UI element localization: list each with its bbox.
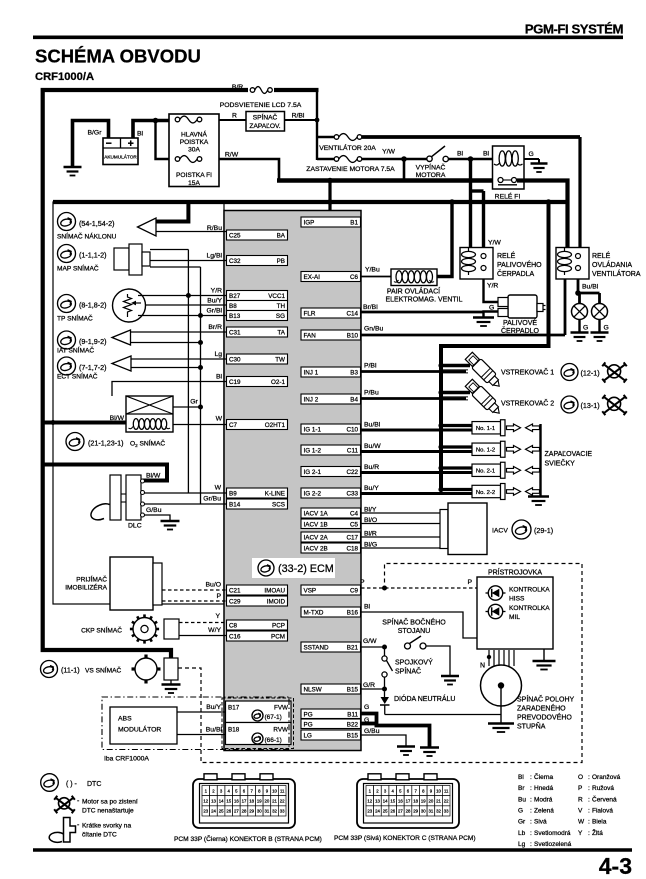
svg-text:EX-AI: EX-AI bbox=[304, 274, 321, 281]
wire vcc rail x188 bbox=[187, 250, 189, 494]
svg-text:VYPÍNAČ: VYPÍNAČ bbox=[416, 162, 446, 171]
svg-text:18: 18 bbox=[413, 798, 418, 803]
svg-text:VCC1: VCC1 bbox=[268, 293, 285, 300]
wire lamp bus bbox=[578, 293, 600, 304]
svg-text:14: 14 bbox=[219, 798, 224, 803]
svg-text::: : bbox=[588, 774, 590, 781]
connector (9-1,9-2) bbox=[58, 331, 107, 349]
svg-text:VSTREKOVAČ 1: VSTREKOVAČ 1 bbox=[501, 368, 554, 377]
svg-text:C22: C22 bbox=[346, 469, 358, 476]
svg-text:Bu/R: Bu/R bbox=[364, 464, 379, 471]
svg-text:PALIVOVÉ: PALIVOVÉ bbox=[503, 318, 537, 327]
svg-text:C29: C29 bbox=[229, 599, 241, 606]
svg-text:RELÉ FI: RELÉ FI bbox=[495, 192, 521, 201]
svg-text:Ružová: Ružová bbox=[592, 785, 614, 792]
wire coil feed bus bbox=[441, 202, 549, 490]
svg-text:ZARADENÉHO: ZARADENÉHO bbox=[517, 704, 566, 713]
wire W K-line bbox=[145, 485, 227, 494]
label Bl battery bbox=[137, 131, 144, 138]
header text PGM-FI SYSTEM bbox=[525, 22, 624, 37]
wire Bl/W O2 thick bbox=[44, 415, 126, 423]
svg-text:B15: B15 bbox=[347, 733, 359, 740]
svg-text:Gr: Gr bbox=[190, 399, 198, 406]
svg-text:C31: C31 bbox=[229, 330, 241, 337]
ignition switch SPINAC ZAPALOV bbox=[246, 112, 285, 132]
svg-text:16: 16 bbox=[398, 798, 403, 803]
svg-text:18: 18 bbox=[249, 798, 254, 803]
svg-text:V: V bbox=[578, 808, 583, 815]
svg-text:G: G bbox=[364, 704, 369, 711]
svg-text:IMOBILIZÉRA: IMOBILIZÉRA bbox=[65, 583, 107, 592]
svg-text:PCM 33P (Sivá) KONEKTOR C (STR: PCM 33P (Sivá) KONEKTOR C (STRANA PCM) bbox=[334, 835, 476, 842]
wire riser x317 bbox=[316, 88, 318, 160]
svg-text:No. 2-1: No. 2-1 bbox=[476, 469, 495, 475]
svg-text:ABS: ABS bbox=[118, 716, 132, 723]
svg-text:Lg: Lg bbox=[214, 351, 222, 358]
svg-text::: : bbox=[588, 785, 590, 792]
ground spark plugs bbox=[528, 497, 549, 506]
svg-text:ČERPADLA: ČERPADLA bbox=[497, 269, 535, 278]
svg-text:29: 29 bbox=[249, 809, 254, 814]
svg-text:FAN: FAN bbox=[304, 333, 317, 340]
label ELEKTROMAG VENTIL bbox=[385, 297, 462, 304]
svg-text:C30: C30 bbox=[229, 357, 241, 364]
wire Y CKP bbox=[179, 613, 227, 623]
wire B/R top + left main wire bbox=[43, 90, 319, 660]
svg-text:Br/R: Br/R bbox=[208, 324, 222, 331]
svg-text:B9: B9 bbox=[229, 491, 237, 498]
svg-text:Bl/W: Bl/W bbox=[146, 473, 161, 480]
label PALIVOVE CERPADLO bbox=[501, 318, 540, 335]
IAT sensor arrow bbox=[112, 330, 131, 345]
label CKP SNIMAC bbox=[81, 626, 122, 635]
svg-text:21: 21 bbox=[272, 798, 277, 803]
svg-text:Bl: Bl bbox=[137, 131, 144, 138]
svg-text:30: 30 bbox=[421, 809, 426, 814]
svg-text:MOTORA: MOTORA bbox=[416, 172, 446, 179]
svg-text:Y/R: Y/R bbox=[211, 288, 222, 295]
svg-text:B1: B1 bbox=[350, 220, 358, 227]
svg-text:G: G bbox=[529, 151, 534, 158]
svg-text:TP SNÍMAČ: TP SNÍMAČ bbox=[57, 314, 93, 323]
svg-text:17: 17 bbox=[406, 798, 411, 803]
caption connector C bbox=[334, 835, 476, 842]
svg-text:27: 27 bbox=[234, 809, 239, 814]
svg-text:OVLÁDANIA: OVLÁDANIA bbox=[592, 260, 632, 269]
svg-text:VSTREKOVAČ 2: VSTREKOVAČ 2 bbox=[501, 399, 554, 408]
svg-text:K-LINE: K-LINE bbox=[265, 491, 285, 498]
svg-text:BA: BA bbox=[277, 233, 286, 240]
svg-text:DTC nenaštartuje: DTC nenaštartuje bbox=[82, 808, 134, 815]
svg-text:28: 28 bbox=[406, 809, 411, 814]
svg-text:15: 15 bbox=[390, 798, 395, 803]
footer rule bbox=[33, 848, 632, 852]
svg-text:No. 1-2: No. 1-2 bbox=[476, 448, 495, 454]
svg-text:C18: C18 bbox=[346, 546, 358, 553]
svg-text:B18: B18 bbox=[228, 727, 240, 734]
injector VSTREKOVAC 2 bbox=[464, 378, 504, 418]
svg-text:PRIJÍMAČ: PRIJÍMAČ bbox=[76, 575, 107, 584]
svg-text:PALIVOVÉHO: PALIVOVÉHO bbox=[497, 260, 542, 269]
relay RELE OVLADANIA VENTILATORA bbox=[556, 248, 589, 280]
svg-text:Bu/Y: Bu/Y bbox=[206, 704, 221, 711]
wire Lg/Bl bbox=[150, 253, 227, 261]
indicator KONTROLKA HISS bbox=[486, 586, 551, 603]
wire G pump ground bbox=[484, 305, 499, 318]
svg-text:R/W: R/W bbox=[225, 152, 239, 159]
svg-text:13: 13 bbox=[375, 798, 380, 803]
ABS MODULATOR box bbox=[110, 707, 177, 744]
svg-text::: : bbox=[588, 808, 590, 815]
ECM right pin boxes bbox=[301, 217, 361, 740]
svg-text:W/Y: W/Y bbox=[208, 627, 221, 634]
svg-text:Bl: Bl bbox=[364, 604, 371, 611]
wire Bu/Y ABS bbox=[177, 704, 226, 712]
svg-text::: : bbox=[588, 819, 590, 826]
svg-text:29: 29 bbox=[413, 809, 418, 814]
wire tilt sensor thick bbox=[153, 202, 188, 222]
svg-text:No. 2-2: No. 2-2 bbox=[476, 490, 495, 496]
label MAP SNIMAC bbox=[57, 264, 99, 273]
svg-text:28: 28 bbox=[242, 809, 247, 814]
svg-text:TW: TW bbox=[275, 357, 285, 364]
svg-text:G/Bu: G/Bu bbox=[364, 728, 380, 735]
svg-text:25: 25 bbox=[219, 809, 224, 814]
svg-text:Bl/O: Bl/O bbox=[364, 517, 377, 524]
PCM connector C drawing bbox=[357, 774, 459, 828]
wire G/R NLSW bbox=[361, 682, 387, 692]
fuse box HLAVNA POISTKA 30A / POISTKA FI 15A bbox=[169, 114, 219, 187]
svg-text:(29-1): (29-1) bbox=[534, 526, 553, 535]
ECM pin B18 RVW (66-1) bbox=[226, 723, 292, 745]
ground fan1 bbox=[571, 333, 589, 342]
svg-text:32: 32 bbox=[436, 809, 441, 814]
ABS dashed enclosure bbox=[102, 697, 289, 750]
svg-text:Gn/Bu: Gn/Bu bbox=[364, 326, 383, 333]
svg-text:C19: C19 bbox=[229, 379, 241, 386]
svg-text:C4: C4 bbox=[350, 511, 359, 518]
svg-text:SSTAND: SSTAND bbox=[304, 645, 330, 652]
fan motor 1 bbox=[572, 304, 588, 333]
svg-text:IAT SNÍMAČ: IAT SNÍMAČ bbox=[57, 346, 94, 355]
svg-text:Bu/W: Bu/W bbox=[364, 443, 381, 450]
svg-text:ZAPAĽOVACIE: ZAPAĽOVACIE bbox=[545, 451, 593, 458]
svg-text:24: 24 bbox=[375, 809, 380, 814]
svg-text:Br: Br bbox=[518, 785, 525, 792]
label Y/W top bbox=[382, 149, 395, 156]
svg-text:11: 11 bbox=[444, 788, 449, 793]
svg-text:IACV 1A: IACV 1A bbox=[304, 511, 329, 518]
junction bus coil feed bbox=[546, 199, 552, 205]
caption connector B bbox=[174, 834, 322, 843]
wire P/Bl INJ1 bbox=[361, 363, 466, 372]
svg-text:PAIR OVLÁDACÍ: PAIR OVLÁDACÍ bbox=[387, 287, 440, 296]
svg-text:Bl: Bl bbox=[457, 151, 464, 158]
svg-text:TH: TH bbox=[277, 303, 286, 310]
VS sensor symbol bbox=[132, 655, 179, 684]
svg-text:19: 19 bbox=[421, 798, 426, 803]
ECM main block bbox=[224, 211, 361, 751]
svg-text:16: 16 bbox=[234, 798, 239, 803]
svg-text:DTC: DTC bbox=[87, 781, 101, 788]
wire R/Bu bbox=[156, 225, 227, 232]
wire P imo bbox=[162, 593, 227, 601]
svg-text:MIL: MIL bbox=[509, 614, 520, 621]
svg-text:KONTROLKA: KONTROLKA bbox=[509, 605, 550, 612]
svg-text:W: W bbox=[215, 485, 222, 492]
svg-text:Bl/G: Bl/G bbox=[364, 542, 377, 549]
svg-text:C33: C33 bbox=[346, 491, 358, 498]
svg-text:G: G bbox=[364, 717, 369, 724]
svg-text:B21: B21 bbox=[347, 645, 359, 652]
svg-text:Gr/Bl: Gr/Bl bbox=[207, 308, 223, 315]
svg-text:IGP: IGP bbox=[304, 220, 315, 227]
wire R/W bbox=[219, 152, 279, 181]
svg-text:CKP SNÍMAČ: CKP SNÍMAČ bbox=[81, 626, 122, 635]
svg-text:31: 31 bbox=[429, 809, 434, 814]
connector (11-1) VS SNIMAC bbox=[41, 661, 122, 678]
DLC connector bbox=[91, 475, 145, 520]
svg-text:B/R: B/R bbox=[232, 84, 243, 91]
svg-text:22: 22 bbox=[280, 798, 285, 803]
wire clutch chain bbox=[384, 647, 386, 687]
PCM connector B drawing bbox=[193, 774, 295, 828]
svg-text:B8: B8 bbox=[229, 303, 237, 310]
svg-text:Bu/Y: Bu/Y bbox=[207, 298, 222, 305]
fuse ZASTAVENIE MOTORA 7.5A bbox=[334, 153, 362, 165]
wire Y/R pump bbox=[484, 279, 499, 302]
svg-text:Krátke svorky na: Krátke svorky na bbox=[82, 823, 131, 830]
svg-text:Lg: Lg bbox=[518, 841, 526, 848]
wire Bl to FI relay bbox=[448, 151, 492, 159]
svg-text:B/Gr: B/Gr bbox=[88, 130, 103, 137]
svg-text:26: 26 bbox=[226, 809, 231, 814]
wire Bu/Y bbox=[146, 298, 227, 306]
svg-text:B11: B11 bbox=[347, 711, 358, 718]
svg-text:PODSVIETENIE LCD 7.5A: PODSVIETENIE LCD 7.5A bbox=[220, 102, 302, 109]
svg-text:C5: C5 bbox=[350, 521, 359, 528]
svg-text:12: 12 bbox=[203, 798, 208, 803]
svg-text:13: 13 bbox=[211, 798, 216, 803]
svg-text:12: 12 bbox=[367, 798, 372, 803]
svg-text:15A: 15A bbox=[188, 180, 200, 187]
svg-text:Bl/W: Bl/W bbox=[110, 415, 125, 422]
wire PG combined bbox=[375, 726, 430, 748]
connector (21-1,23-1) O2 SNIMAC bbox=[66, 433, 165, 451]
gear position switch bbox=[481, 665, 522, 724]
svg-text:IMOAU: IMOAU bbox=[264, 588, 285, 595]
wire battery positive bbox=[133, 121, 169, 139]
svg-text:(8-1,8-2): (8-1,8-2) bbox=[79, 301, 107, 310]
ground fan2 bbox=[591, 333, 609, 342]
label SNIMAC NAKLONU bbox=[57, 232, 117, 241]
svg-text:Motor sa po zistení: Motor sa po zistení bbox=[82, 799, 138, 806]
svg-text:DIÓDA NEUTRÁLU: DIÓDA NEUTRÁLU bbox=[394, 694, 455, 703]
svg-text:PG: PG bbox=[304, 711, 313, 718]
svg-text:čítanie DTC: čítanie DTC bbox=[82, 832, 117, 839]
label Y/W fuel relay bbox=[488, 240, 501, 247]
svg-text:IG 1-2: IG 1-2 bbox=[304, 448, 322, 455]
svg-text:PGM-FI SYSTÉM: PGM-FI SYSTÉM bbox=[525, 22, 624, 37]
label RELE OVLADANIA VENTILATORA bbox=[592, 251, 641, 278]
injector VSTREKOVAC 1 bbox=[464, 351, 504, 391]
svg-text:B10: B10 bbox=[347, 333, 359, 340]
label PRIJIMAC IMOBILIZERA bbox=[65, 575, 107, 592]
svg-text:PG: PG bbox=[304, 721, 313, 728]
svg-text:19: 19 bbox=[257, 798, 262, 803]
svg-text:FVW: FVW bbox=[274, 705, 288, 712]
wire G/Bu LG bbox=[361, 728, 406, 746]
svg-text:C9: C9 bbox=[350, 588, 359, 595]
svg-text:PB: PB bbox=[277, 258, 285, 265]
connector (8-1,8-2) bbox=[58, 295, 107, 313]
wire R bbox=[219, 113, 246, 121]
ground LG bbox=[397, 747, 415, 756]
svg-text:17: 17 bbox=[242, 798, 247, 803]
svg-text:Bu/O: Bu/O bbox=[206, 582, 222, 589]
svg-text:Bu: Bu bbox=[518, 796, 526, 803]
svg-text:B16: B16 bbox=[347, 610, 359, 617]
svg-text:KONTROLKA: KONTROLKA bbox=[509, 587, 550, 594]
legend no-start symbol bbox=[54, 796, 138, 815]
svg-text:C11: C11 bbox=[347, 448, 359, 455]
wire Bu/O bbox=[162, 582, 227, 591]
wire main switched R/W bus bbox=[277, 178, 497, 182]
label N bbox=[480, 663, 485, 670]
svg-text:G: G bbox=[604, 325, 609, 332]
svg-text:SVIEČKY: SVIEČKY bbox=[545, 459, 576, 468]
wire main bus bbox=[53, 200, 568, 204]
svg-text:PCM: PCM bbox=[271, 634, 285, 641]
junction bus PAIR bbox=[449, 199, 455, 205]
connector (13-1) bbox=[561, 396, 600, 413]
wire zastavenie row bbox=[317, 158, 427, 161]
connector (12-1) bbox=[561, 364, 600, 381]
wire MAP sg bbox=[150, 266, 201, 268]
svg-text:C16: C16 bbox=[229, 634, 241, 641]
label G fan2 bbox=[604, 325, 609, 332]
svg-text:33: 33 bbox=[280, 809, 285, 814]
junction inj1 feed bbox=[438, 363, 470, 373]
svg-text::: : bbox=[530, 830, 532, 837]
connector (54-1,54-2) bbox=[58, 213, 115, 231]
svg-text:POISTKA FI: POISTKA FI bbox=[176, 172, 212, 179]
svg-text:AKUMULÁTOR: AKUMULÁTOR bbox=[104, 154, 137, 160]
label IACV bbox=[492, 528, 508, 535]
junction battery bus bbox=[153, 118, 159, 124]
svg-text:Čierna: Čierna bbox=[534, 772, 554, 781]
svg-text:32: 32 bbox=[272, 809, 277, 814]
svg-text:SPÍNAČ: SPÍNAČ bbox=[253, 113, 278, 122]
tilt sensor arrow bbox=[138, 218, 157, 236]
svg-text:RELÉ: RELÉ bbox=[592, 251, 611, 260]
svg-text:INJ 2: INJ 2 bbox=[304, 397, 319, 404]
wire ECT ground bbox=[131, 365, 203, 370]
CKP sensor symbol bbox=[130, 614, 179, 643]
svg-text:R: R bbox=[232, 113, 237, 120]
svg-text:P/Bl: P/Bl bbox=[364, 363, 377, 370]
wire G/Bu DLC ground bbox=[145, 507, 171, 521]
svg-text:Y/W: Y/W bbox=[488, 240, 501, 247]
svg-text:R/Bl: R/Bl bbox=[292, 113, 305, 120]
svg-text::: : bbox=[588, 830, 590, 837]
label Bl/W DLC bbox=[146, 473, 161, 480]
fuse VENTILATOR 20A bbox=[334, 131, 362, 143]
label VSTREKOVAC 2 bbox=[501, 399, 554, 408]
svg-text:G/R: G/R bbox=[363, 682, 375, 689]
wires IACV bbox=[361, 507, 440, 549]
label B/Gr bbox=[88, 130, 103, 137]
ground battery bbox=[64, 167, 82, 176]
label RELE PALIVOVEHO CERPADLA bbox=[497, 251, 542, 278]
svg-text:G: G bbox=[489, 305, 494, 312]
svg-text:FLR: FLR bbox=[304, 311, 316, 318]
svg-text:Y: Y bbox=[578, 830, 583, 837]
wire sg rail x200 bbox=[200, 267, 202, 504]
svg-text:HISS: HISS bbox=[509, 596, 525, 603]
wire Bl bbox=[112, 374, 227, 397]
svg-text:B14: B14 bbox=[229, 502, 241, 509]
colour code legend bbox=[518, 772, 621, 848]
wire Bl M-TXD bbox=[361, 604, 477, 639]
no-start symbol 1 bbox=[602, 362, 627, 382]
wire Y/R bbox=[138, 288, 227, 299]
ground PG bbox=[420, 748, 439, 757]
svg-text:O2HT1: O2HT1 bbox=[265, 422, 286, 429]
indicator KONTROLKA MIL bbox=[486, 604, 551, 621]
wire PAIR feed bbox=[437, 202, 452, 277]
wire IAT ground bbox=[131, 340, 204, 345]
svg-text:R/Bu: R/Bu bbox=[207, 225, 222, 232]
svg-text:DLC: DLC bbox=[128, 523, 142, 530]
wire Br/R bbox=[131, 324, 227, 332]
wire FI relay contact out bbox=[517, 181, 568, 249]
svg-text:STUPŇA: STUPŇA bbox=[517, 722, 546, 731]
svg-text:ZASTAVENIE MOTORA 7.5A: ZASTAVENIE MOTORA 7.5A bbox=[306, 166, 395, 173]
wire Br/Bl FLR bbox=[361, 304, 484, 312]
instrument cluster PRISTROJOVKA box bbox=[477, 577, 553, 649]
junction frame O2 bbox=[51, 420, 56, 425]
connector (7-1,7-2) bbox=[58, 357, 107, 375]
subtitle CRF1000/A bbox=[35, 71, 94, 83]
svg-text:ČERPADLO: ČERPADLO bbox=[501, 326, 540, 335]
switch SPINAC BOCNEHO STOJANU bbox=[405, 636, 427, 649]
svg-text:B13: B13 bbox=[229, 313, 241, 320]
svg-text:Bu/Bl: Bu/Bl bbox=[582, 284, 599, 291]
wire side stand ground bbox=[426, 646, 450, 676]
svg-text:23: 23 bbox=[203, 809, 208, 814]
svg-text:Biela: Biela bbox=[592, 819, 607, 826]
svg-text:IG 1-1: IG 1-1 bbox=[304, 427, 322, 434]
wire Lg bbox=[131, 351, 227, 359]
svg-text:ELEKTROMAG. VENTIL: ELEKTROMAG. VENTIL bbox=[385, 297, 462, 304]
svg-text:IG 2-2: IG 2-2 bbox=[304, 491, 322, 498]
svg-text:C25: C25 bbox=[229, 233, 241, 240]
connector (29-1) bbox=[512, 520, 553, 539]
svg-text:Iba CRF1000A: Iba CRF1000A bbox=[104, 756, 149, 763]
svg-text:O2-1: O2-1 bbox=[271, 379, 285, 386]
wire neutral to gear switch bbox=[385, 714, 501, 716]
svg-text:G: G bbox=[583, 325, 588, 332]
wire W O2 bbox=[173, 416, 227, 425]
svg-text:4-3: 4-3 bbox=[599, 853, 632, 879]
svg-text:N: N bbox=[480, 663, 485, 670]
svg-text:20: 20 bbox=[265, 798, 270, 803]
diode DIODA NEUTRALU bbox=[380, 692, 390, 715]
wire fan coil to FAN bbox=[564, 279, 567, 335]
svg-text:Bl/R: Bl/R bbox=[364, 531, 377, 538]
title SCHEMA OBVODU bbox=[35, 46, 201, 67]
